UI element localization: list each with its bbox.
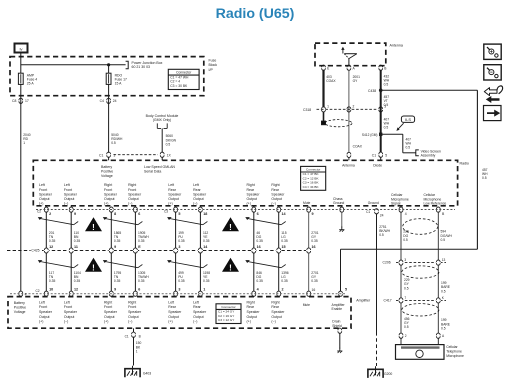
svg-text:1: 1 xyxy=(203,288,205,292)
svg-text:Output: Output xyxy=(168,315,179,319)
svg-text:I/P: I/P xyxy=(209,68,214,72)
svg-text:0.5: 0.5 xyxy=(482,176,487,180)
svg-text:0.35: 0.35 xyxy=(114,279,121,283)
svg-text:0.5: 0.5 xyxy=(406,145,411,149)
svg-text:0.5: 0.5 xyxy=(441,327,446,331)
svg-text:Speaker: Speaker xyxy=(193,192,207,196)
svg-text:S412 (GM): S412 (GM) xyxy=(362,133,378,137)
svg-text:9: 9 xyxy=(114,288,116,292)
svg-text:6: 6 xyxy=(138,288,140,292)
svg-text:0.5: 0.5 xyxy=(404,286,409,290)
svg-text:Front: Front xyxy=(128,188,136,192)
svg-text:Iv: Iv xyxy=(19,46,22,51)
svg-text:Positive: Positive xyxy=(101,170,113,174)
svg-text:Right: Right xyxy=(104,300,112,304)
svg-text:Shield: Shield xyxy=(332,324,342,328)
svg-text:15: 15 xyxy=(282,245,286,249)
svg-text:Rear: Rear xyxy=(247,305,255,309)
svg-text:C4: C4 xyxy=(100,99,104,103)
svg-text:(GMX Only): (GMX Only) xyxy=(153,118,171,122)
svg-text:13: 13 xyxy=(442,258,446,262)
svg-text:Front: Front xyxy=(128,305,136,309)
svg-text:1: 1 xyxy=(113,153,115,157)
svg-text:0.35: 0.35 xyxy=(281,279,288,283)
svg-text:Voltage: Voltage xyxy=(14,310,26,314)
svg-text:C3 = 30 BK: C3 = 30 BK xyxy=(170,84,188,88)
svg-text:0.35: 0.35 xyxy=(256,239,263,243)
svg-text:Speaker: Speaker xyxy=(247,192,261,196)
svg-text:Left: Left xyxy=(64,300,70,304)
svg-text:Output: Output xyxy=(193,315,204,319)
svg-text:0.5: 0.5 xyxy=(441,289,446,293)
svg-text:C3 = 12 GY: C3 = 12 GY xyxy=(218,318,234,322)
svg-text:Connector: Connector xyxy=(176,71,192,75)
svg-text:Rear: Rear xyxy=(168,305,176,309)
svg-text:10: 10 xyxy=(49,288,53,292)
svg-text:Assembly: Assembly xyxy=(421,154,436,158)
svg-text:Radio: Radio xyxy=(460,162,469,166)
svg-text:C1: C1 xyxy=(366,210,370,214)
svg-text:ILS: ILS xyxy=(405,117,411,122)
svg-text:Connector: Connector xyxy=(306,167,320,171)
svg-text:0.35: 0.35 xyxy=(74,239,81,243)
svg-text:(+): (+) xyxy=(39,202,43,206)
svg-text:16: 16 xyxy=(312,288,316,292)
svg-text:Left: Left xyxy=(39,300,45,304)
svg-text:Output: Output xyxy=(168,197,179,201)
svg-text:!: ! xyxy=(229,263,232,272)
svg-text:Speaker: Speaker xyxy=(64,310,78,314)
svg-text:(−): (−) xyxy=(128,320,132,324)
svg-text:11: 11 xyxy=(74,245,78,249)
svg-text:0.35: 0.35 xyxy=(114,239,121,243)
svg-text:C2: C2 xyxy=(37,210,41,214)
svg-text:1X: 1X xyxy=(167,153,172,157)
svg-text:60 21 30 03: 60 21 30 03 xyxy=(132,65,151,69)
svg-text:(−): (−) xyxy=(193,202,197,206)
svg-text:0.5: 0.5 xyxy=(379,233,384,237)
svg-text:C3: C3 xyxy=(164,210,168,214)
svg-text:Output: Output xyxy=(39,315,50,319)
svg-text:0.35: 0.35 xyxy=(49,279,56,283)
svg-text:Speaker: Speaker xyxy=(193,310,207,314)
svg-text:Right: Right xyxy=(104,183,112,187)
svg-text:5: 5 xyxy=(178,212,180,216)
svg-text:C206: C206 xyxy=(383,260,391,264)
svg-text:Battery: Battery xyxy=(14,301,25,305)
svg-text:(+): (+) xyxy=(168,202,172,206)
svg-text:2: 2 xyxy=(282,288,284,292)
svg-text:Right: Right xyxy=(128,300,136,304)
svg-text:(−): (−) xyxy=(128,202,132,206)
svg-text:Positive: Positive xyxy=(14,306,26,310)
svg-text:Rear: Rear xyxy=(193,305,201,309)
svg-text:Output: Output xyxy=(64,315,75,319)
svg-text:Front: Front xyxy=(104,305,112,309)
svg-text:(+): (+) xyxy=(168,320,172,324)
svg-text:1: 1 xyxy=(327,105,329,109)
svg-text:Speaker: Speaker xyxy=(104,192,118,196)
svg-text:Left: Left xyxy=(168,183,174,187)
svg-text:2: 2 xyxy=(49,212,51,216)
svg-text:Front: Front xyxy=(39,188,47,192)
svg-text:C1: C1 xyxy=(125,335,129,339)
svg-text:C4 = 34 BK: C4 = 34 BK xyxy=(303,185,320,189)
svg-text:(−): (−) xyxy=(271,320,275,324)
svg-text:Speaker: Speaker xyxy=(104,310,118,314)
svg-text:(−): (−) xyxy=(64,320,68,324)
svg-text:Enable: Enable xyxy=(332,307,343,311)
svg-text:Output: Output xyxy=(104,315,115,319)
svg-text:COAX: COAX xyxy=(326,79,336,83)
svg-text:C438: C438 xyxy=(368,89,376,93)
svg-text:(+): (+) xyxy=(247,320,251,324)
svg-text:5: 5 xyxy=(345,288,347,292)
svg-text:9: 9 xyxy=(114,245,116,249)
svg-text:24: 24 xyxy=(380,213,384,217)
svg-text:C425: C425 xyxy=(31,249,39,253)
svg-text:1: 1 xyxy=(136,350,138,354)
svg-text:Right: Right xyxy=(271,300,279,304)
svg-text:0.35: 0.35 xyxy=(49,239,56,243)
svg-text:C1: C1 xyxy=(99,153,103,157)
svg-text:25 A: 25 A xyxy=(27,81,35,85)
svg-text:(+): (+) xyxy=(104,320,108,324)
svg-text:Front: Front xyxy=(39,305,47,309)
svg-text:Low Reference: Low Reference xyxy=(424,202,447,206)
svg-text:Signal: Signal xyxy=(391,202,401,206)
svg-text:0.5: 0.5 xyxy=(111,141,116,145)
svg-text:0.5: 0.5 xyxy=(384,82,389,86)
svg-text:Output: Output xyxy=(128,315,139,319)
svg-text:C8: C8 xyxy=(12,99,16,103)
svg-text:Speaker: Speaker xyxy=(247,310,261,314)
svg-text:0.5: 0.5 xyxy=(166,143,171,147)
svg-text:Rear: Rear xyxy=(193,188,201,192)
svg-text:Left: Left xyxy=(168,300,174,304)
svg-text:3: 3 xyxy=(404,258,406,262)
svg-text:Cellular: Cellular xyxy=(446,345,458,349)
svg-text:6: 6 xyxy=(138,212,140,216)
svg-text:Battery: Battery xyxy=(101,165,112,169)
svg-text:0.35: 0.35 xyxy=(74,279,81,283)
svg-text:Rear: Rear xyxy=(271,305,279,309)
svg-text:Speaker: Speaker xyxy=(168,192,182,196)
svg-text:8: 8 xyxy=(114,212,116,216)
svg-text:12: 12 xyxy=(74,288,78,292)
svg-text:(+): (+) xyxy=(247,202,251,206)
svg-text:C1: C1 xyxy=(372,153,376,157)
svg-text:0.5: 0.5 xyxy=(403,238,408,242)
svg-text:3: 3 xyxy=(178,288,180,292)
svg-text:16: 16 xyxy=(312,245,316,249)
svg-text:Mute: Mute xyxy=(303,201,310,205)
svg-text:Radio (U65): Radio (U65) xyxy=(216,6,295,22)
svg-text:(−): (−) xyxy=(193,320,197,324)
svg-text:B: B xyxy=(139,335,141,339)
svg-text:0.35: 0.35 xyxy=(281,239,288,243)
svg-text:Left: Left xyxy=(64,183,70,187)
svg-text:Microphone: Microphone xyxy=(446,354,464,358)
svg-text:4: 4 xyxy=(405,212,407,216)
svg-text:Output: Output xyxy=(39,197,50,201)
svg-text:9: 9 xyxy=(312,212,314,216)
svg-text:Rear: Rear xyxy=(247,188,255,192)
svg-text:0.35: 0.35 xyxy=(256,279,263,283)
svg-text:0.35: 0.35 xyxy=(311,239,318,243)
svg-text:Left: Left xyxy=(193,183,199,187)
svg-text:Output: Output xyxy=(193,197,204,201)
svg-text:Speaker: Speaker xyxy=(64,192,78,196)
svg-text:0.35: 0.35 xyxy=(138,239,145,243)
svg-text:Right: Right xyxy=(128,183,136,187)
svg-text:0.35: 0.35 xyxy=(138,279,145,283)
svg-text:GY: GY xyxy=(353,79,359,83)
svg-text:Voltage: Voltage xyxy=(101,174,113,178)
svg-text:Speaker: Speaker xyxy=(271,192,285,196)
svg-text:(−): (−) xyxy=(64,202,68,206)
svg-text:!: ! xyxy=(229,223,232,232)
svg-text:Speaker: Speaker xyxy=(271,310,285,314)
svg-text:16: 16 xyxy=(257,245,261,249)
svg-text:2: 2 xyxy=(405,334,407,338)
svg-text:Rear: Rear xyxy=(271,188,279,192)
svg-text:0.5: 0.5 xyxy=(384,126,389,130)
svg-text:G403: G403 xyxy=(143,372,151,376)
svg-text:Left: Left xyxy=(193,300,199,304)
svg-text:0.35: 0.35 xyxy=(178,279,185,283)
svg-text:Amplifier: Amplifier xyxy=(356,298,371,302)
svg-text:Speaker: Speaker xyxy=(128,192,142,196)
svg-text:C417: C417 xyxy=(384,299,392,303)
svg-text:15 A: 15 A xyxy=(115,81,123,85)
svg-text:Output: Output xyxy=(247,197,258,201)
svg-text:C318: C318 xyxy=(303,108,311,112)
svg-text:Right: Right xyxy=(271,183,279,187)
svg-text:3: 3 xyxy=(178,245,180,249)
svg-text:(−): (−) xyxy=(271,202,275,206)
svg-text:9: 9 xyxy=(74,212,76,216)
svg-text:18: 18 xyxy=(203,212,207,216)
svg-text:0.35: 0.35 xyxy=(203,239,210,243)
svg-text:0.35: 0.35 xyxy=(203,279,210,283)
svg-text:12: 12 xyxy=(49,245,53,249)
svg-text:4: 4 xyxy=(25,292,27,296)
svg-text:Right: Right xyxy=(247,183,255,187)
svg-text:Antenna: Antenna xyxy=(342,163,355,167)
svg-text:Ground: Ground xyxy=(368,201,379,205)
svg-text:Right: Right xyxy=(247,300,255,304)
svg-text:!: ! xyxy=(92,223,95,232)
svg-text:Rear: Rear xyxy=(168,188,176,192)
svg-text:Block: Block xyxy=(209,63,218,67)
svg-text:Output: Output xyxy=(64,197,75,201)
svg-text:Output: Output xyxy=(271,315,282,319)
svg-text:Speaker: Speaker xyxy=(39,310,53,314)
svg-text:Front: Front xyxy=(64,305,72,309)
svg-text:0.35: 0.35 xyxy=(311,279,318,283)
svg-text:Speaker: Speaker xyxy=(168,310,182,314)
svg-text:COAX: COAX xyxy=(353,144,363,148)
svg-text:6: 6 xyxy=(257,212,259,216)
svg-text:Front: Front xyxy=(64,188,72,192)
svg-text:17: 17 xyxy=(25,99,29,103)
svg-text:0.5: 0.5 xyxy=(404,325,409,329)
svg-text:2: 2 xyxy=(353,105,355,109)
svg-text:0.5: 0.5 xyxy=(441,238,446,242)
svg-text:0.35: 0.35 xyxy=(178,239,185,243)
svg-text:(+): (+) xyxy=(104,202,108,206)
svg-text:Output: Output xyxy=(104,197,115,201)
svg-text:Left: Left xyxy=(39,183,45,187)
svg-text:Serial Data: Serial Data xyxy=(144,170,161,174)
svg-text:24: 24 xyxy=(113,99,117,103)
svg-text:G200: G200 xyxy=(384,372,392,376)
svg-text:7: 7 xyxy=(404,296,406,300)
svg-text:Mute: Mute xyxy=(303,303,310,307)
svg-text:!: ! xyxy=(92,263,95,272)
svg-text:(+): (+) xyxy=(39,320,43,324)
svg-text:1: 1 xyxy=(23,141,25,145)
svg-text:Connector: Connector xyxy=(221,305,235,309)
svg-text:Diode: Diode xyxy=(373,163,382,167)
svg-text:Telephone: Telephone xyxy=(446,350,462,354)
svg-text:Output: Output xyxy=(128,197,139,201)
svg-text:Front: Front xyxy=(104,188,112,192)
svg-text:Low Speed GMLAN: Low Speed GMLAN xyxy=(144,165,175,169)
svg-text:Speaker: Speaker xyxy=(39,192,53,196)
svg-text:Ground: Ground xyxy=(333,201,344,205)
svg-text:Output: Output xyxy=(247,315,258,319)
svg-text:C2: C2 xyxy=(36,289,40,293)
svg-text:0.5: 0.5 xyxy=(384,103,389,107)
svg-text:Antenna: Antenna xyxy=(390,44,403,48)
svg-text:5: 5 xyxy=(385,153,387,157)
svg-text:Fuse: Fuse xyxy=(209,59,217,63)
svg-text:Output: Output xyxy=(271,197,282,201)
svg-text:Speaker: Speaker xyxy=(128,310,142,314)
